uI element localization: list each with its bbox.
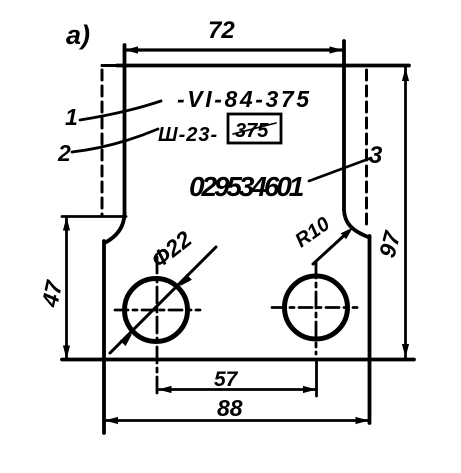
hidden dashed line right	[365, 70, 368, 226]
arrow 47 top	[63, 217, 70, 231]
arrow R10	[341, 228, 353, 240]
svg-text:88: 88	[217, 395, 243, 421]
plate bottom edge	[62, 358, 414, 362]
dimension 47 extension line (step)	[62, 215, 126, 218]
leader 3	[309, 158, 371, 181]
arrow 47 bottom	[63, 346, 70, 360]
left hole horizontal centerline	[115, 309, 200, 312]
svg-text:2: 2	[57, 140, 71, 166]
dimension line 97	[404, 67, 407, 358]
arrow 97 bottom	[402, 344, 409, 358]
arrow 57 left	[158, 386, 172, 393]
diameter leader line F22	[110, 247, 216, 353]
svg-text:029534601: 029534601	[189, 171, 304, 202]
left fillet	[105, 214, 125, 243]
left hole circle	[125, 279, 188, 342]
svg-text:3: 3	[369, 142, 383, 169]
top edge hidden dash left	[102, 64, 116, 67]
plate right lower edge	[368, 236, 372, 423]
plate left upper edge	[123, 45, 127, 214]
dimension line 88	[104, 419, 370, 422]
right hole vertical centerline	[315, 262, 318, 354]
dimension line 57	[158, 388, 317, 391]
svg-text:57: 57	[214, 368, 239, 391]
svg-text:1: 1	[65, 104, 78, 130]
arrow F22 lower	[120, 334, 132, 346]
arrow 72 right	[330, 46, 344, 53]
right hole horizontal centerline	[272, 306, 357, 309]
svg-text:375: 375	[235, 120, 269, 142]
arrow 88 right	[356, 417, 370, 424]
arrow 88 left	[105, 417, 119, 424]
svg-text:72: 72	[208, 17, 235, 44]
plate top edge	[117, 64, 409, 68]
marking stamp box 375	[228, 114, 281, 143]
left hole vertical centerline	[156, 257, 159, 396]
arrow 57 right	[303, 386, 317, 393]
arrow 97 top	[402, 68, 409, 82]
arrow F22 upper	[180, 274, 192, 286]
leader 2	[72, 129, 158, 152]
extension from right hole to 57	[315, 360, 318, 397]
svg-text:Ш-23-: Ш-23-	[158, 124, 218, 146]
right fillet	[344, 210, 370, 238]
dimension line 47	[65, 217, 68, 360]
radius leader R10	[313, 231, 349, 264]
leader 1	[80, 101, 161, 120]
svg-text:-VI-84-375: -VI-84-375	[177, 86, 312, 112]
hidden dashed line left	[101, 70, 104, 215]
arrow 72 left	[125, 46, 139, 53]
right hole circle	[285, 276, 348, 339]
plate right upper edge	[342, 41, 346, 210]
svg-text:а): а)	[66, 20, 90, 50]
plate left lower edge	[102, 241, 106, 433]
dimension line 72	[125, 48, 344, 51]
